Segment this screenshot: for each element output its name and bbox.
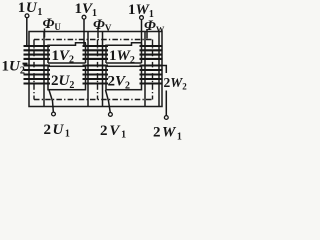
flux path dash-dot loop bbox=[34, 40, 153, 100]
wire 2W2 upper lead bbox=[163, 66, 167, 74]
wire 1U1 to winding bbox=[26, 18, 28, 46]
flux arrow W bbox=[146, 29, 148, 39]
terminal 2V1 bbox=[109, 113, 113, 117]
lead 1U2 bbox=[23, 63, 28, 65]
left limb rails bbox=[43, 32, 45, 107]
terminal 2U1 bbox=[52, 112, 56, 116]
coil loop box 2U2 bbox=[48, 66, 86, 89]
primary winding 1V bars bbox=[83, 46, 109, 59]
wire 2U1 from winding bbox=[49, 90, 53, 112]
flux arrow U bbox=[44, 29, 46, 38]
terminal 1W1 bbox=[140, 16, 144, 20]
secondary winding 2W bars bbox=[140, 66, 163, 84]
terminal 1U1 bbox=[25, 14, 29, 18]
terminal 1V1 bbox=[82, 15, 86, 19]
secondary winding 2U bars bbox=[24, 66, 51, 84]
coil loop box 1W2 bbox=[106, 43, 142, 63]
middle limb rails bbox=[88, 32, 103, 107]
wire 2W1 from winding bbox=[165, 91, 167, 116]
coil loop box 2V2 bbox=[106, 66, 142, 89]
coil loop box 1V2 bbox=[48, 43, 86, 63]
primary winding 1W bars bbox=[140, 46, 163, 59]
terminal 2W1 bbox=[164, 116, 168, 120]
flux arrow V bbox=[97, 28, 99, 38]
wire 2V1 from winding bbox=[106, 90, 111, 112]
secondary winding 2V bars bbox=[83, 66, 109, 84]
primary winding 1U bars bbox=[24, 46, 51, 59]
transformer core outline bbox=[29, 32, 162, 107]
wire 1V1 to winding bbox=[83, 19, 85, 45]
right limb rails bbox=[145, 32, 159, 107]
wire 1W1 to winding bbox=[141, 20, 143, 46]
